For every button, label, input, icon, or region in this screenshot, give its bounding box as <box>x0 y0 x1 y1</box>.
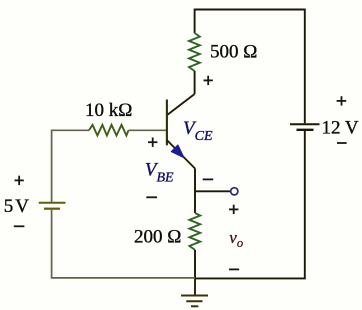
label: value 10 kilohm <box>85 100 132 121</box>
svg-text:12 V: 12 V <box>322 118 359 139</box>
label: vo plus <box>229 205 238 214</box>
battery V1 5V top (long) plate <box>39 202 66 204</box>
wire: 12V negative terminal down right side to bottom rail <box>195 131 305 278</box>
battery V1 5V bottom (short) plate <box>44 208 60 210</box>
svg-text:5V: 5V <box>4 196 29 217</box>
battery V2 12V bottom (short) plate <box>297 129 314 131</box>
label: vo minus (top, emitter side) <box>203 178 214 180</box>
label: VCE plus (collector) <box>204 76 213 85</box>
ground symbol (three bars) <box>181 296 208 307</box>
resistor 200 ohm (zigzag) <box>189 213 200 250</box>
wire: emitter down to output node and 200-ohm resistor <box>194 169 196 214</box>
battery V2 12V top (long) plate <box>290 123 320 125</box>
wire: 5V negative down and along bottom to ground node <box>52 210 195 278</box>
label: V2 polarity minus <box>337 142 347 144</box>
label: vo <box>229 228 243 250</box>
transistor Q1 emitter arrow (npn) <box>171 145 183 158</box>
label: V2 polarity plus <box>337 96 347 105</box>
wire: 10k resistor to transistor base <box>129 129 167 131</box>
label: value 500 ohm <box>210 42 257 63</box>
transistor Q1 emitter lead (diagonal) <box>167 140 195 169</box>
wire: top rail from 500-ohm resistor to 12V source <box>195 10 305 124</box>
svg-text:200 Ω: 200 Ω <box>134 227 181 248</box>
wire: ground stem <box>194 277 196 295</box>
label: VCE <box>183 118 213 144</box>
label: vo minus (bottom) <box>229 268 239 270</box>
wire: output node to open terminal <box>195 190 230 192</box>
wire: 200-ohm bottom lead to ground node <box>194 250 196 279</box>
wire: 500-ohm bottom lead to collector corner <box>194 71 196 94</box>
resistor 500 ohm (zigzag) <box>189 33 200 71</box>
label: VBE minus <box>146 196 157 198</box>
label: V1 polarity minus <box>14 225 25 227</box>
label: value 200 ohm <box>134 227 181 248</box>
transistor Q1 base bar <box>166 100 168 146</box>
terminal: vo open circle <box>231 188 238 195</box>
wire: 5V positive up left side and across to 10k resistor <box>52 130 89 202</box>
label: V1 polarity plus <box>15 176 24 185</box>
label: VBE <box>145 160 174 186</box>
svg-text:500 Ω: 500 Ω <box>210 42 257 63</box>
transistor Q1 collector lead (diagonal) <box>167 94 195 115</box>
resistor 10 kilohm (zigzag) <box>89 125 129 136</box>
label: VBE plus (base) <box>148 138 157 147</box>
svg-text:10 kΩ: 10 kΩ <box>85 100 132 121</box>
label: value 12 V <box>322 118 359 139</box>
label: value 5 V <box>4 196 29 217</box>
